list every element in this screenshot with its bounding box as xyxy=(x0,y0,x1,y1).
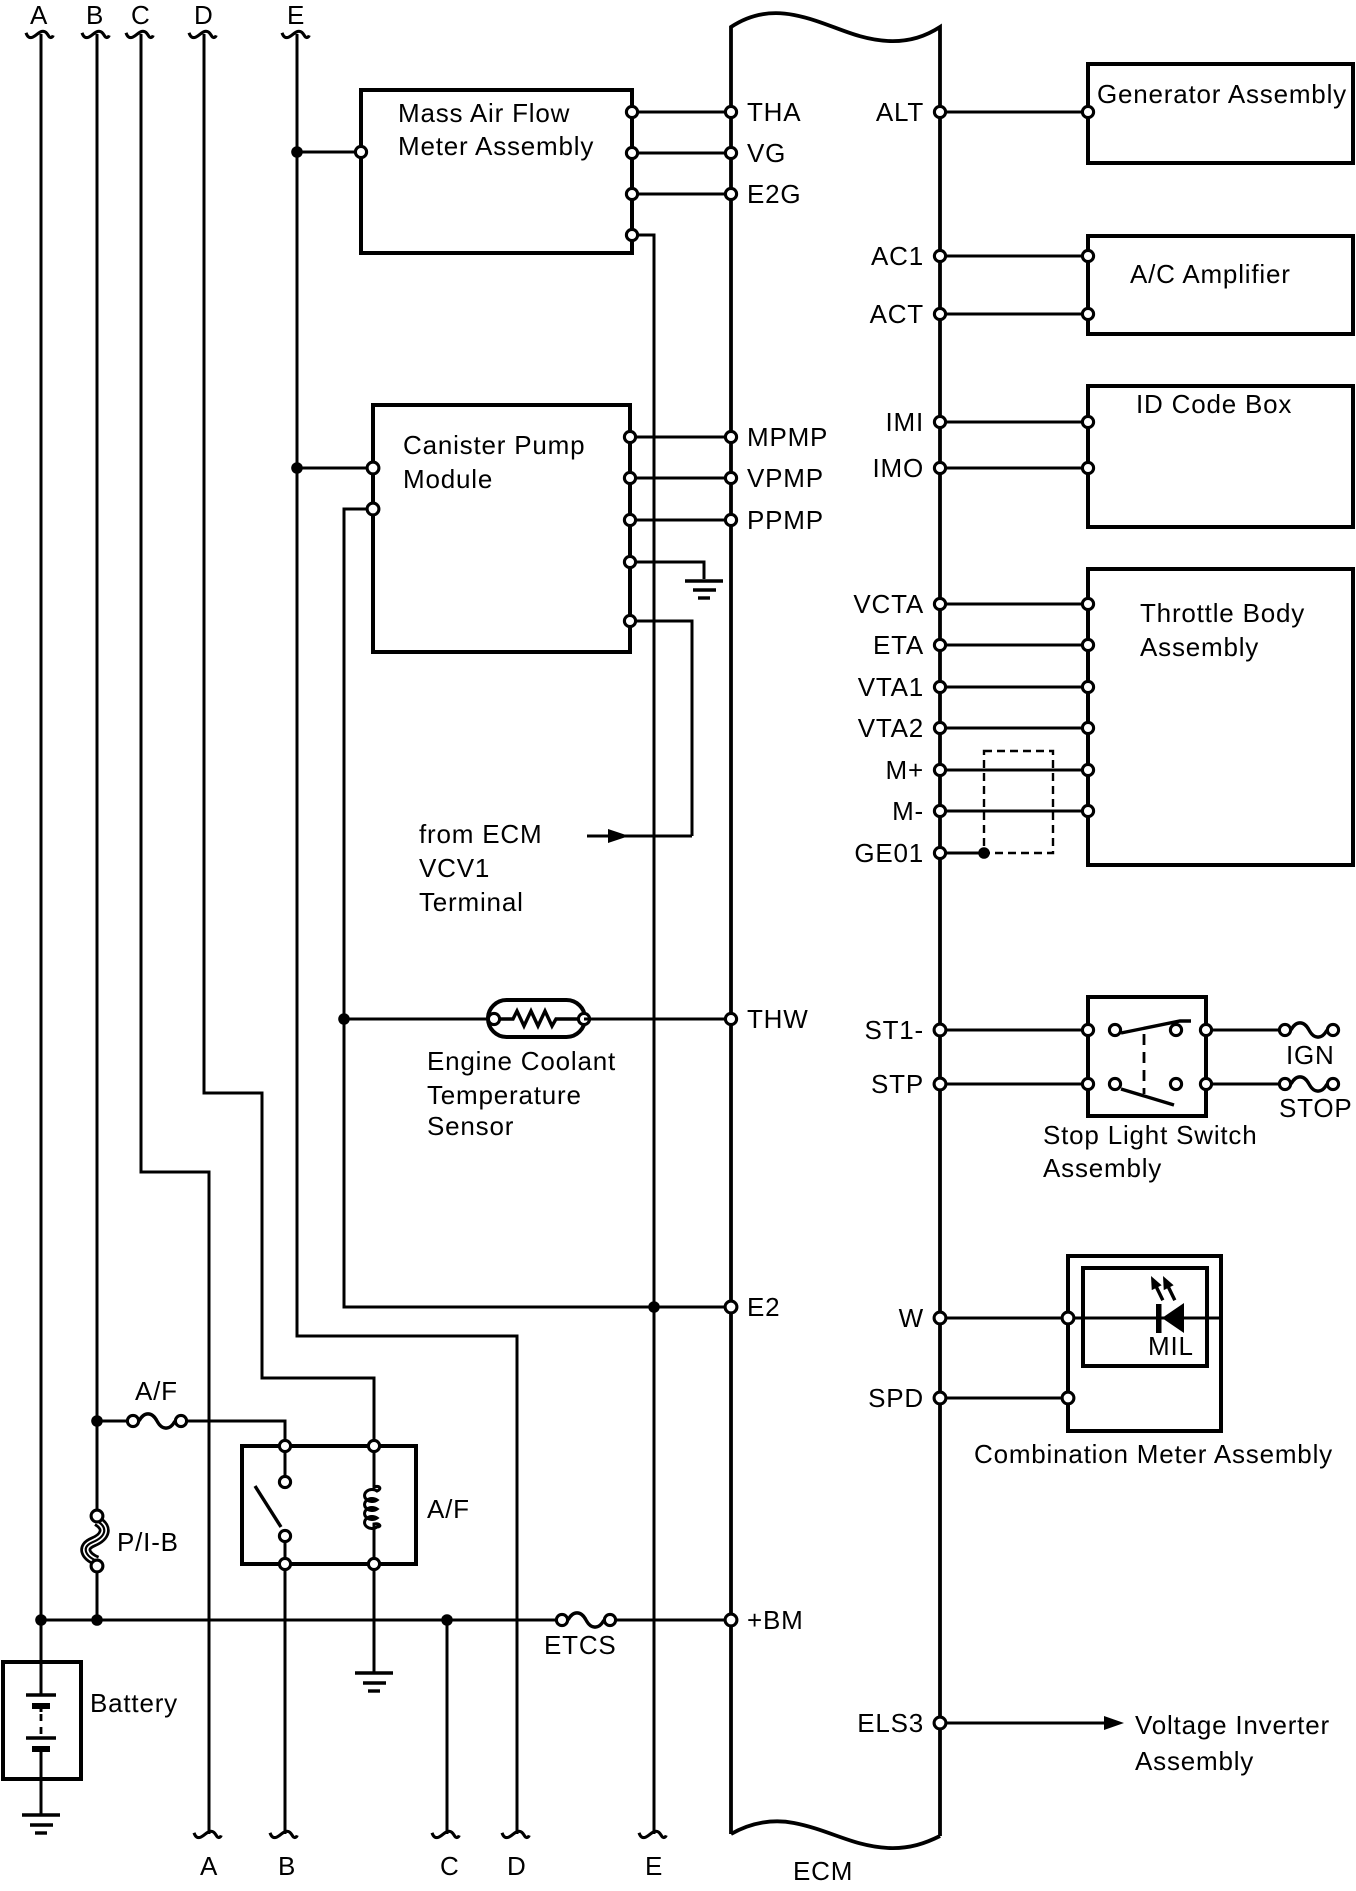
arrowhead VCV1 xyxy=(608,829,629,843)
svg-text:Temperature: Temperature xyxy=(427,1080,582,1110)
wire relay coil to ground xyxy=(373,1570,376,1673)
terminal IMI on ECM xyxy=(934,416,945,427)
svg-text:ALT: ALT xyxy=(876,97,924,127)
svg-text:IMI: IMI xyxy=(885,407,924,437)
svg-text:M+: M+ xyxy=(886,755,924,785)
wire ACT xyxy=(940,313,1088,316)
break symbol D top xyxy=(189,31,216,37)
relay switch contact upper xyxy=(284,1452,287,1476)
wire VCTA xyxy=(940,603,1088,606)
battery cells xyxy=(26,1620,56,1814)
meter pin SPD xyxy=(1062,1392,1074,1404)
wire VPMP xyxy=(630,477,731,480)
junction dot E wire at canister xyxy=(291,462,303,474)
svg-text:Engine Coolant: Engine Coolant xyxy=(427,1046,616,1076)
Stop Light Switch Assembly box xyxy=(1043,997,1258,1183)
svg-text:D: D xyxy=(194,0,214,30)
svg-text:D: D xyxy=(507,1851,527,1881)
wire switch to IGN xyxy=(1212,1029,1279,1032)
terminal ALT on ECM xyxy=(934,106,945,117)
pin canister VCV1 xyxy=(624,615,635,626)
break symbol A top xyxy=(26,31,53,37)
terminal VG on ECM xyxy=(725,147,736,158)
svg-text:ELS3: ELS3 xyxy=(857,1708,924,1738)
relay pin bottom-right xyxy=(368,1558,379,1569)
junction dot bus at A xyxy=(35,1614,47,1626)
stop switch lower blade xyxy=(1121,1089,1174,1105)
svg-text:GE01: GE01 xyxy=(854,838,924,868)
svg-text:Canister Pump: Canister Pump xyxy=(403,430,585,460)
break symbol bottom A xyxy=(194,1831,221,1837)
svg-text:Voltage Inverter: Voltage Inverter xyxy=(1135,1710,1330,1740)
wire W inside meter xyxy=(1068,1317,1221,1320)
svg-text:VTA1: VTA1 xyxy=(858,672,924,702)
terminal +BM on ECM xyxy=(725,1614,737,1626)
pin MAF left xyxy=(355,146,366,157)
relay pin bottom-left xyxy=(279,1558,290,1569)
svg-text:Generator Assembly: Generator Assembly xyxy=(1097,79,1347,109)
meter pin W xyxy=(1062,1312,1074,1324)
wire P/I-B to bus xyxy=(96,1572,99,1620)
junction dot THW branch xyxy=(338,1013,350,1025)
svg-text:ACT: ACT xyxy=(870,299,924,329)
break symbol bottom E xyxy=(639,1831,666,1837)
pin canister ground xyxy=(624,556,635,567)
svg-text:VPMP: VPMP xyxy=(747,463,824,493)
break symbol bottom B xyxy=(270,1831,297,1837)
terminal ST1- on ECM xyxy=(934,1024,946,1036)
svg-text:Terminal: Terminal xyxy=(419,887,524,917)
wire bus to bottom break C xyxy=(446,1620,449,1834)
wire MAF shield to E net: right then down to E2 junction and bottom break E xyxy=(632,235,654,1834)
wire STP to stop light switch xyxy=(940,1083,1088,1086)
svg-text:Sensor: Sensor xyxy=(427,1111,514,1141)
wire E2G: MAF to ECM xyxy=(632,193,731,196)
wire THA: MAF to ECM xyxy=(632,111,731,114)
Battery box xyxy=(3,1662,81,1779)
label from ECM VCV1 Terminal xyxy=(419,819,542,917)
relay switch contact lower xyxy=(279,1530,290,1541)
terminal ETA on ECM xyxy=(934,639,945,650)
terminal M- on ECM xyxy=(934,805,945,816)
terminal VTA1 on ECM xyxy=(934,681,945,692)
wire ST1- to stop light switch xyxy=(940,1029,1088,1032)
junction dot B at A/F fuse xyxy=(91,1415,103,1427)
wire from-ECM-VCV1 arrow line xyxy=(587,835,692,838)
svg-text:IGN: IGN xyxy=(1286,1040,1335,1070)
wire canister pump ground xyxy=(630,562,704,579)
svg-text:THW: THW xyxy=(747,1004,809,1034)
wire +B bus xyxy=(41,1619,556,1622)
wire MAF power from E wire xyxy=(297,151,361,154)
relay coil xyxy=(365,1446,380,1564)
terminal THA on ECM xyxy=(725,106,736,117)
pin canister MPMP xyxy=(624,431,635,442)
svg-text:ECM: ECM xyxy=(793,1856,853,1886)
svg-text:Mass Air Flow: Mass Air Flow xyxy=(398,98,570,128)
terminal PPMP on ECM xyxy=(725,514,736,525)
svg-text:ETCS: ETCS xyxy=(544,1630,617,1660)
terminal IMO on ECM xyxy=(934,462,945,473)
wire MPMP xyxy=(630,436,731,439)
break symbol E top xyxy=(282,31,309,37)
wire IMI xyxy=(940,421,1088,424)
terminal ACT on ECM xyxy=(934,308,945,319)
svg-text:+BM: +BM xyxy=(747,1605,804,1635)
svg-text:ETA: ETA xyxy=(873,630,924,660)
wire canister VCV1: right then down to arrow line xyxy=(630,621,692,836)
svg-text:A: A xyxy=(30,0,48,30)
ECM xyxy=(731,13,940,1886)
junction dot GE01 shield xyxy=(978,847,990,859)
wire B vertical xyxy=(96,34,99,1510)
terminal VTA2 on ECM xyxy=(934,722,945,733)
pin canister left lower xyxy=(367,503,379,515)
svg-text:B: B xyxy=(86,0,104,30)
wire VG: MAF to ECM xyxy=(632,152,731,155)
svg-text:E: E xyxy=(287,0,305,30)
pin MAF shield xyxy=(626,229,637,240)
wire D: down, jogs, to A/F relay coil xyxy=(204,34,374,1446)
wire ETA xyxy=(940,644,1088,647)
svg-text:A/F: A/F xyxy=(427,1494,470,1524)
svg-text:STOP: STOP xyxy=(1279,1093,1353,1123)
svg-text:Assembly: Assembly xyxy=(1135,1746,1254,1776)
relay switch blade xyxy=(255,1486,281,1527)
pin MAF VG xyxy=(626,147,637,158)
terminal VPMP on ECM xyxy=(725,472,736,483)
svg-text:THA: THA xyxy=(747,97,801,127)
terminal W on ECM xyxy=(934,1312,946,1324)
svg-text:Battery: Battery xyxy=(90,1688,178,1718)
pin canister VPMP xyxy=(624,472,635,483)
terminal E2 on ECM xyxy=(725,1301,737,1313)
wire A/F fuse to relay switch xyxy=(187,1421,285,1440)
Generator Assembly box xyxy=(1082,64,1353,163)
junction dot bus at B xyxy=(91,1614,103,1626)
terminal THW on ECM xyxy=(725,1013,736,1024)
wire ALT xyxy=(940,111,1088,114)
svg-text:A/F: A/F xyxy=(135,1376,178,1406)
svg-text:A/C Amplifier: A/C Amplifier xyxy=(1130,259,1291,289)
stop switch pins row2 xyxy=(1082,1078,1093,1089)
Engine Coolant Temperature Sensor (thermistor) xyxy=(427,1000,616,1141)
break symbol C top xyxy=(126,31,153,37)
fuse A/F xyxy=(127,1414,186,1428)
LED MIL xyxy=(1146,1274,1194,1361)
wire VTA1 xyxy=(940,686,1088,689)
svg-text:E2G: E2G xyxy=(747,179,801,209)
svg-text:C: C xyxy=(131,0,151,30)
svg-text:IMO: IMO xyxy=(872,453,924,483)
svg-text:from ECM: from ECM xyxy=(419,819,542,849)
terminal AC1 on ECM xyxy=(934,250,945,261)
svg-text:Throttle Body: Throttle Body xyxy=(1140,598,1305,628)
wire A vertical xyxy=(40,34,43,1620)
wire AC1 xyxy=(940,255,1088,258)
ground canister pump xyxy=(685,581,723,598)
svg-text:STP: STP xyxy=(871,1069,924,1099)
wire relay switch to bottom break B xyxy=(284,1570,287,1834)
break symbol bottom C xyxy=(432,1831,459,1837)
svg-text:Meter Assembly: Meter Assembly xyxy=(398,131,594,161)
wire THW right: sensor to ECM xyxy=(584,1018,731,1021)
connector STOP xyxy=(1279,1077,1353,1123)
wire switch to STOP xyxy=(1212,1083,1279,1086)
Combination Meter Assembly box xyxy=(974,1256,1333,1469)
break symbol B top xyxy=(82,31,109,37)
svg-text:AC1: AC1 xyxy=(871,241,924,271)
pin MAF THA xyxy=(626,106,637,117)
wire THW left: from E2-return line to sensor xyxy=(344,1018,494,1021)
svg-text:W: W xyxy=(899,1303,924,1333)
stop switch dashed link xyxy=(1143,1034,1146,1094)
wire ELS3 arrow to voltage inverter xyxy=(940,1722,1110,1725)
svg-text:SPD: SPD xyxy=(868,1383,924,1413)
pin canister PPMP xyxy=(624,514,635,525)
svg-text:MPMP: MPMP xyxy=(747,422,828,452)
svg-text:P/I-B: P/I-B xyxy=(117,1527,179,1557)
Throttle Body Assembly box xyxy=(1082,569,1353,865)
junction dot E wire at MAF xyxy=(291,146,303,158)
ground relay coil xyxy=(355,1673,393,1691)
svg-text:VTA2: VTA2 xyxy=(858,713,924,743)
break symbol bottom D xyxy=(502,1831,529,1837)
terminal SPD on ECM xyxy=(934,1392,946,1404)
wire E: down, jog right, down to bottom break D xyxy=(297,34,517,1834)
wire canister E2 return: left then down to E2 row xyxy=(344,509,731,1307)
terminal VCTA on ECM xyxy=(934,598,945,609)
Canister Pump Module box xyxy=(373,405,630,652)
svg-text:PPMP: PPMP xyxy=(747,505,824,535)
wire M+ xyxy=(940,769,1088,772)
svg-text:Combination Meter Assembly: Combination Meter Assembly xyxy=(974,1439,1333,1469)
pin canister left upper xyxy=(367,462,379,474)
svg-text:VG: VG xyxy=(747,138,786,168)
wire PPMP xyxy=(630,519,731,522)
relay pin top-left xyxy=(279,1440,290,1451)
relay A/F box xyxy=(242,1446,416,1564)
relay pin top-right xyxy=(368,1440,379,1451)
stop switch upper blade xyxy=(1121,1021,1191,1033)
label Voltage Inverter Assembly xyxy=(1135,1710,1330,1776)
wire M- xyxy=(940,810,1088,813)
wire IMO xyxy=(940,467,1088,470)
fusible link P/I-B xyxy=(86,1510,179,1572)
svg-text:C: C xyxy=(440,1851,460,1881)
wire B to A/F fuse xyxy=(97,1420,127,1423)
svg-text:ST1-: ST1- xyxy=(864,1015,924,1045)
wire SPD to combination meter xyxy=(940,1397,1068,1400)
wire canister power from E wire xyxy=(297,467,373,470)
svg-text:E: E xyxy=(645,1851,663,1881)
pin MAF E2G xyxy=(626,188,637,199)
svg-text:M-: M- xyxy=(892,796,924,826)
svg-text:Stop Light Switch: Stop Light Switch xyxy=(1043,1120,1258,1150)
svg-text:VCTA: VCTA xyxy=(853,589,924,619)
Mass Air Flow Meter Assembly box xyxy=(361,90,632,253)
wire GE01 xyxy=(940,852,984,855)
svg-text:A: A xyxy=(200,1851,218,1881)
svg-text:Module: Module xyxy=(403,464,493,494)
A/C Amplifier box xyxy=(1082,236,1353,334)
wire W to combination meter xyxy=(940,1317,1068,1320)
fuse ETCS xyxy=(544,1613,617,1660)
wire VTA2 xyxy=(940,727,1088,730)
connector IGN xyxy=(1279,1023,1338,1070)
ID Code Box xyxy=(1082,386,1353,527)
terminal GE01 on ECM xyxy=(934,847,945,858)
junction dot E2 row at E line xyxy=(648,1301,660,1313)
svg-text:Assembly: Assembly xyxy=(1140,632,1259,662)
terminal STP on ECM xyxy=(934,1078,946,1090)
svg-text:MIL: MIL xyxy=(1148,1331,1194,1361)
svg-text:ID Code Box: ID Code Box xyxy=(1136,389,1292,419)
wire C: down, jog right, down to bottom break A xyxy=(141,34,209,1834)
shield dashed box (motor) xyxy=(984,751,1053,853)
terminal ELS3 on ECM xyxy=(934,1717,946,1729)
svg-text:E2: E2 xyxy=(747,1292,780,1322)
terminal E2G on ECM xyxy=(725,188,736,199)
terminal M+ on ECM xyxy=(934,764,945,775)
ground battery xyxy=(22,1815,60,1833)
junction dot bus at C-branch xyxy=(441,1614,453,1626)
svg-text:Assembly: Assembly xyxy=(1043,1153,1162,1183)
svg-text:B: B xyxy=(278,1851,296,1881)
stop switch pins row1 xyxy=(1082,1024,1093,1035)
terminal MPMP on ECM xyxy=(725,431,736,442)
svg-text:VCV1: VCV1 xyxy=(419,853,490,883)
